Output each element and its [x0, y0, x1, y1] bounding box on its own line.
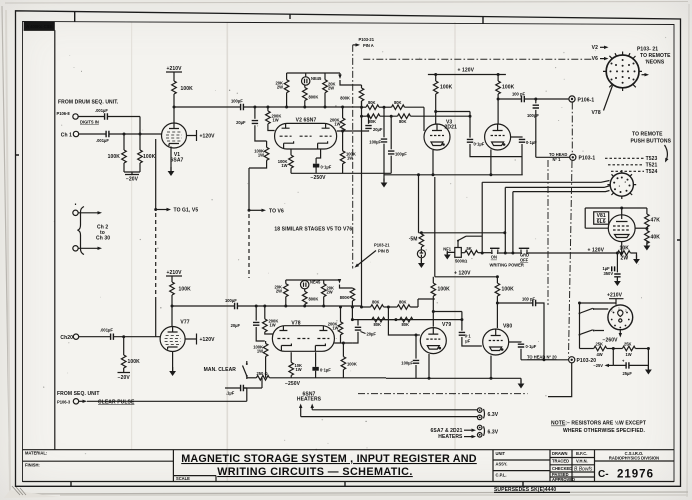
ground NF1	[444, 251, 455, 260]
svg-text:V77: V77	[180, 320, 189, 326]
wire chain line lower	[358, 393, 528, 395]
svg-text:40K: 40K	[651, 235, 661, 241]
svg-text:800K: 800K	[309, 297, 319, 302]
label P103-21 TO REMOTE NEONS	[637, 47, 671, 66]
terminal P106-1	[569, 96, 594, 103]
svg-text:ASSY.: ASSY.	[496, 462, 508, 467]
resistor 80K row1 a	[362, 100, 392, 110]
svg-text:+120V: +120V	[200, 337, 216, 343]
svg-text:P103-21: P103-21	[359, 37, 375, 42]
svg-text:100K: 100K	[143, 154, 156, 160]
svg-text:TO HEAD Nº 20: TO HEAD Nº 20	[527, 354, 557, 359]
svg-text:350V: 350V	[604, 271, 614, 276]
resistor .5M	[409, 233, 424, 247]
terminal heater 6.3V lower	[431, 425, 499, 440]
svg-text:DIGITS IN: DIGITS IN	[80, 120, 99, 125]
svg-text:1W: 1W	[258, 153, 264, 158]
ground arrow rail V2	[338, 75, 341, 80]
wire V81 top rail	[585, 207, 647, 229]
wire switch bus	[417, 173, 506, 234]
svg-text:1W: 1W	[281, 163, 287, 168]
svg-text:4W: 4W	[597, 352, 603, 357]
svg-text:0·1µF: 0·1µF	[321, 164, 332, 169]
wires to pushbutton connector	[481, 181, 611, 255]
svg-text:21976: 21976	[617, 469, 654, 481]
capacitor 100pF divider	[527, 98, 539, 158]
svg-text:TO V6: TO V6	[269, 208, 284, 214]
svg-text:100µF: 100µF	[369, 140, 381, 145]
svg-text:C-: C-	[598, 469, 609, 480]
tube V2 6SN7	[275, 118, 337, 150]
resistor 100K right V78	[341, 342, 357, 378]
svg-text:80K: 80K	[394, 100, 402, 105]
capacitor 0.1uF cathode V78	[312, 352, 331, 378]
svg-text:B.F.C.: B.F.C.	[576, 451, 587, 456]
resistor 80K row2 lower b	[400, 317, 413, 327]
svg-text:800K: 800K	[340, 295, 350, 300]
capacitor 20uF left V2	[236, 107, 267, 141]
svg-text:0·1µF: 0·1µF	[474, 142, 485, 147]
wire V4 cathode	[490, 150, 492, 175]
svg-text:WHERE OTHERWISE SPECIFIED.: WHERE OTHERWISE SPECIFIED.	[563, 428, 645, 434]
tube V78 6SN7	[272, 320, 334, 351]
svg-text:PIN B: PIN B	[378, 248, 389, 253]
resistor 100K 1W right V2	[340, 130, 356, 174]
svg-text:TO G1, V5: TO G1, V5	[174, 208, 199, 214]
svg-text:A 400Kc CSE: A 400Kc CSE	[26, 24, 52, 29]
svg-text:100K: 100K	[502, 85, 515, 91]
resistor 800K left V2	[303, 85, 319, 107]
capacitor 25uF	[622, 347, 650, 376]
tube V80 2D21	[483, 324, 513, 355]
svg-text:−250V: −250V	[310, 175, 326, 181]
svg-text:100µF: 100µF	[225, 298, 237, 303]
svg-text:+210V: +210V	[607, 293, 623, 299]
svg-text:T524: T524	[646, 169, 658, 175]
wire chain line PIN A vertical	[352, 45, 354, 269]
svg-text:V6: V6	[592, 56, 598, 62]
node junction V1 anode	[173, 106, 176, 109]
tube V77 6SA7	[160, 320, 190, 352]
svg-text:80K: 80K	[368, 100, 376, 105]
resistor 800K left V78	[302, 289, 318, 306]
svg-text:800K: 800K	[340, 96, 350, 101]
node +210V lower connector	[607, 293, 624, 305]
resistor 100K anode V1	[172, 81, 193, 123]
node -20V	[124, 163, 140, 183]
node -250V rail V78	[285, 381, 301, 387]
svg-text:WRITING POWER: WRITING POWER	[490, 262, 524, 267]
svg-text:100K: 100K	[502, 287, 515, 293]
resistor 80K row2 a	[362, 114, 398, 124]
svg-text:100µF: 100µF	[395, 152, 407, 157]
node +120V tap V1	[187, 130, 216, 141]
wire top rail V2	[287, 72, 340, 74]
capacitor 0.1uF output V80	[509, 342, 537, 360]
resistor 250 ohm rail	[247, 371, 386, 380]
capacitor 0.1uF cathode V2	[313, 149, 332, 174]
node bus junctions V78	[255, 305, 342, 309]
svg-text:+210V: +210V	[166, 66, 182, 72]
svg-text:+ 120V: + 120V	[454, 270, 471, 276]
node +120V rail lower	[435, 270, 498, 277]
svg-text:.1µF: .1µF	[226, 391, 235, 396]
terminal P103-20	[548, 357, 596, 397]
ground 25uF	[645, 366, 652, 375]
resistor 20K 2W right V2	[323, 73, 336, 107]
node V78 leader	[592, 86, 613, 116]
resistor 100K anode V77	[170, 282, 191, 327]
resistor 100K anode V79	[431, 277, 450, 327]
svg-text:20µF: 20µF	[373, 127, 383, 132]
wire chain line top horizontal	[363, 58, 592, 60]
svg-text:V.H.N.: V.H.N.	[576, 458, 588, 463]
svg-text:V80: V80	[503, 324, 512, 330]
svg-text:100K: 100K	[181, 86, 194, 92]
resistor 100K 1W left V2	[249, 141, 269, 168]
wire heater lines	[301, 410, 478, 417]
pushbutton ON	[490, 248, 524, 267]
svg-text:1W: 1W	[273, 118, 279, 123]
svg-text:25K: 25K	[596, 341, 604, 346]
capacitor 0.1uF interstage	[434, 110, 522, 157]
neon NE45 V2	[302, 73, 322, 85]
svg-text:MAN. CLEAR: MAN. CLEAR	[204, 367, 237, 373]
capacitor 100uF coupling V2	[231, 99, 362, 111]
svg-text:1W: 1W	[257, 349, 263, 354]
top-left code box	[24, 21, 55, 449]
svg-text:80K: 80K	[402, 322, 410, 327]
tube V3 2D21	[424, 120, 457, 151]
svg-text:.001µF: .001µF	[100, 328, 113, 333]
wire TO HEAD No1	[536, 152, 570, 162]
svg-text:80K: 80K	[374, 322, 382, 327]
svg-text:P106-8: P106-8	[57, 111, 71, 116]
svg-text:2W: 2W	[327, 290, 333, 295]
svg-text:NEONS: NEONS	[646, 60, 665, 66]
resistor 80K row1 lower a	[362, 300, 397, 310]
wire grid V79 from row1	[387, 306, 420, 336]
svg-text:5K: 5K	[467, 246, 472, 251]
svg-text:P103-21: P103-21	[374, 242, 390, 247]
svg-text:MAGNETIC STORAGE SYSTEM , IN: MAGNETIC STORAGE SYSTEM , INPUT REGISTER…	[181, 453, 477, 465]
wire top rail V78	[286, 279, 340, 281]
svg-text:6SA7 & 2D21: 6SA7 & 2D21	[431, 428, 463, 434]
resistor 800K right V78	[340, 285, 355, 320]
resistor 200K 1W grid right V2	[330, 107, 345, 133]
capacitor 100pF head line	[496, 297, 544, 360]
svg-text:V2: V2	[592, 45, 598, 51]
svg-text:ON: ON	[491, 255, 497, 260]
resistor 5K	[461, 246, 491, 255]
wire clear to man clear	[225, 378, 262, 402]
svg-text:P106-3: P106-3	[57, 399, 71, 404]
wire V81 cathode	[620, 242, 623, 255]
svg-text:FROM DRUM SEQ. UNIT.: FROM DRUM SEQ. UNIT.	[58, 100, 119, 106]
svg-text:P103- 21: P103- 21	[637, 47, 658, 53]
terminal heater 6.3V upper	[477, 408, 498, 420]
svg-text:47K: 47K	[651, 218, 661, 224]
svg-text:100K: 100K	[128, 359, 141, 365]
svg-text:25µF: 25µF	[623, 371, 633, 376]
svg-text:V78: V78	[592, 110, 601, 116]
ground V1 cathode	[168, 147, 175, 177]
svg-text:Ch20: Ch20	[60, 335, 73, 341]
connector power plug	[608, 305, 633, 338]
svg-text:UNIT: UNIT	[496, 451, 506, 456]
svg-text:5000Ω: 5000Ω	[455, 259, 467, 264]
capacitor 20uF left V78	[231, 306, 265, 341]
wire V3 cathode	[432, 150, 434, 175]
capacitor 100pF P106-1	[497, 91, 569, 102]
svg-text:2W: 2W	[621, 256, 629, 262]
wire cathodes lower	[428, 354, 493, 380]
svg-text:1W: 1W	[296, 367, 302, 372]
svg-text:NE45: NE45	[310, 280, 321, 285]
svg-text:250 Ω: 250 Ω	[257, 371, 268, 376]
svg-text:µF: µF	[465, 339, 470, 344]
ground 40K	[644, 242, 651, 251]
resistor 20K 2W left V2	[275, 73, 288, 107]
svg-text:100µF: 100µF	[231, 99, 243, 104]
resistor 80K row1 b	[392, 100, 425, 131]
svg-text:0·1µF: 0·1µF	[320, 368, 331, 373]
svg-text:MATERIAL:: MATERIAL:	[25, 451, 47, 456]
svg-text:−260V: −260V	[603, 337, 619, 343]
svg-text:V2 6SN7: V2 6SN7	[296, 118, 317, 124]
node +120V rail top	[428, 68, 506, 75]
svg-text:−20V: −20V	[118, 375, 131, 381]
svg-text:FROM SEQ. UNIT: FROM SEQ. UNIT	[57, 391, 100, 397]
capacitor 0.1uF output V4	[510, 137, 537, 175]
labels T523 T521 T524	[605, 156, 658, 175]
resistor 800K right V2	[340, 80, 364, 107]
resistor 100K 1W left V78	[253, 341, 268, 378]
resistor 10K 2W	[617, 245, 636, 261]
svg-text:Nº 1: Nº 1	[553, 157, 562, 162]
capacitor 20uF right V2	[343, 115, 383, 132]
node -250V rail V2	[291, 173, 391, 181]
svg-text:PUSH BUTTONS: PUSH BUTTONS	[631, 138, 672, 144]
connector P103-21 remote neons	[603, 52, 642, 92]
resistor 100K grid V77	[121, 337, 140, 368]
svg-text:FINISH:: FINISH:	[25, 463, 40, 468]
svg-text:HEATERS: HEATERS	[438, 434, 463, 440]
svg-text:TO REMOTE: TO REMOTE	[632, 131, 663, 137]
capacitor .001uF Ch20	[79, 328, 160, 340]
pushbutton OFF	[519, 248, 618, 262]
left column divider	[24, 30, 55, 449]
svg-text:1W: 1W	[270, 323, 276, 328]
svg-text:2W: 2W	[276, 289, 282, 294]
node P103-21 PIN B	[353, 242, 390, 269]
svg-text:6.3V: 6.3V	[488, 430, 499, 436]
wire chain panel line	[548, 103, 572, 357]
terminal Ch20	[60, 334, 78, 341]
capacitor .001uF digits	[78, 108, 140, 134]
resistor 80K row2 b	[398, 114, 471, 124]
svg-text:100K: 100K	[108, 154, 121, 160]
svg-text:NOTE:– RESISTORS ARE ½W EX: NOTE:– RESISTORS ARE ½W EXCEPT	[551, 420, 646, 427]
svg-text:20µF: 20µF	[367, 332, 377, 337]
right cells	[493, 450, 674, 482]
resistor 100K anode V80	[495, 275, 514, 328]
svg-text:.001µF: .001µF	[95, 108, 108, 113]
svg-text:Ch 1: Ch 1	[61, 132, 72, 138]
resistor 200K 1W grid left V78	[263, 306, 279, 334]
resistor 200K 1W grid right V78	[328, 307, 353, 343]
node junction V77 anode	[171, 305, 174, 308]
node -25V arrow	[593, 363, 613, 368]
svg-text:HEATERS: HEATERS	[297, 397, 322, 403]
svg-text:B.Bowfs: B.Bowfs	[574, 466, 593, 472]
svg-text:2W: 2W	[277, 85, 283, 90]
resistor 100K anode V4	[496, 73, 515, 125]
resistor 10K 1W cathode V78	[289, 352, 302, 378]
svg-text:6.3V: 6.3V	[488, 412, 499, 418]
svg-text:18 SIMILAR STAGES V5 TO V7: 18 SIMILAR STAGES V5 TO V76	[274, 227, 352, 233]
svg-text:0·1µF: 0·1µF	[526, 344, 537, 349]
svg-text:+: +	[622, 358, 625, 363]
svg-text:−25V: −25V	[593, 363, 603, 368]
svg-text:6SA7: 6SA7	[171, 158, 184, 164]
svg-text:100K: 100K	[179, 287, 192, 293]
svg-text:.001µF: .001µF	[96, 138, 109, 143]
label TO REMOTE PUSH BUTTONS	[631, 131, 672, 163]
capacitor 0.1uF interstage lower	[432, 310, 482, 346]
wire anode feed lower rail	[434, 177, 436, 277]
svg-text:P106-1: P106-1	[578, 97, 595, 103]
node divider junction	[612, 347, 626, 365]
fuse NF1 5000 ohm	[443, 246, 467, 263]
node V6 arrow	[592, 56, 609, 62]
svg-text:C.P.L.: C.P.L.	[496, 472, 507, 477]
capacitor .001uF CA1	[79, 131, 162, 143]
node grid junction V77	[122, 335, 125, 338]
schematic content	[57, 37, 672, 440]
resistor 100K grid left	[108, 134, 127, 163]
capacitor 100uF grid V79	[401, 334, 419, 379]
resistor 80K row2 lower a	[372, 317, 400, 327]
svg-text:800K: 800K	[309, 95, 319, 100]
lamp neon indicator	[417, 247, 425, 268]
connector push buttons	[607, 170, 636, 199]
node V2 arrow	[592, 45, 609, 51]
terminal CA1	[61, 131, 79, 138]
wire grid V80 row2	[351, 318, 462, 321]
resistor 25K 1W	[622, 341, 648, 357]
svg-text:100 pF: 100 pF	[512, 91, 525, 96]
wire anode bus V1	[174, 106, 241, 108]
svg-text:1W: 1W	[332, 325, 338, 330]
svg-text:SCALE: SCALE	[176, 476, 190, 481]
tube V1 6SA7	[162, 123, 187, 164]
capacitor 1uF 350V	[603, 252, 621, 287]
wire switch column	[578, 302, 616, 349]
svg-text:20µF: 20µF	[236, 120, 246, 125]
svg-text:100µF: 100µF	[401, 360, 413, 365]
neon NE45 V78	[301, 280, 321, 289]
svg-text:100K: 100K	[347, 362, 357, 367]
wire anode bus V77	[172, 305, 235, 307]
node cathode rail lower + ground	[386, 378, 524, 388]
wire TO G1 V5	[154, 139, 198, 337]
label NOTE	[551, 420, 646, 435]
ground arrow rail V78	[338, 279, 341, 284]
svg-text:2W: 2W	[328, 86, 334, 91]
node +210V supply V77	[166, 270, 182, 282]
svg-text:100K: 100K	[440, 85, 453, 91]
svg-text:10K: 10K	[620, 245, 630, 251]
resistor 20K 2W left V78	[274, 280, 288, 306]
node +210V supply V1	[166, 66, 182, 81]
resistor 20K 2W right V78	[321, 280, 334, 306]
resistor 200K 1W grid left V2	[266, 107, 282, 131]
svg-text:80K: 80K	[372, 300, 380, 305]
switch MAN CLEAR	[204, 361, 248, 379]
svg-text:+ 120V: + 120V	[458, 68, 475, 74]
title block	[23, 450, 675, 494]
node -20V V77	[118, 368, 131, 381]
resistor 47K	[645, 208, 661, 231]
resistor 40K	[645, 231, 661, 246]
tube V81 6L6	[594, 212, 635, 242]
svg-text:20µF: 20µF	[231, 323, 241, 328]
svg-text:PIN A: PIN A	[363, 43, 374, 48]
terminal P106-8 DIGITS IN	[57, 100, 119, 125]
svg-text:1W: 1W	[626, 352, 632, 357]
svg-text:NE45: NE45	[311, 76, 322, 81]
svg-text:T523: T523	[646, 156, 658, 162]
svg-text:TRACED: TRACED	[552, 458, 569, 463]
svg-text:100pF: 100pF	[527, 113, 539, 118]
node V81 anode junction	[635, 227, 648, 230]
svg-text:CLEAR PULSE: CLEAR PULSE	[98, 400, 135, 406]
resistor 100K anode V3	[433, 73, 452, 124]
node +120V tap V77	[185, 334, 215, 345]
label 6SN7 heaters	[297, 392, 322, 417]
svg-text:DRAWN: DRAWN	[552, 451, 568, 456]
svg-text:TO REMOTE: TO REMOTE	[640, 53, 671, 59]
wire TO V6	[248, 168, 284, 278]
ground screen	[381, 179, 388, 188]
svg-text:−20V: −20V	[126, 177, 139, 183]
terminals Ch2 to Ch30	[73, 202, 110, 255]
svg-text:T521: T521	[646, 162, 658, 168]
ground 10K	[633, 255, 640, 264]
svg-text:OFF: OFF	[520, 257, 529, 262]
terminal P103-1	[570, 154, 596, 161]
svg-text:80K: 80K	[399, 119, 407, 124]
switch battery 2	[579, 330, 619, 344]
svg-text:+120V: +120V	[200, 134, 216, 140]
terminal P106-3 CLEAR PULSE	[57, 391, 247, 406]
resistor 100K grid right	[138, 134, 156, 163]
switch writing power	[457, 236, 482, 247]
node grid junction	[123, 133, 126, 136]
resistor 100K 1W cathode V2	[278, 149, 294, 174]
svg-text:·5M: ·5M	[409, 236, 418, 242]
svg-text:WRITING CIRCUITS — SCHEMATIC.: WRITING CIRCUITS — SCHEMATIC.	[217, 466, 413, 478]
node bus junctions V2	[253, 106, 344, 109]
svg-text:+ 120V: + 120V	[588, 248, 605, 254]
node +120V label V81	[588, 248, 605, 254]
svg-text:2D21: 2D21	[445, 125, 457, 131]
svg-text:V78: V78	[291, 320, 300, 326]
capacitor 100uF coupling V78	[225, 298, 362, 309]
svg-text:−250V: −250V	[285, 381, 301, 387]
svg-text:V79: V79	[442, 322, 451, 328]
